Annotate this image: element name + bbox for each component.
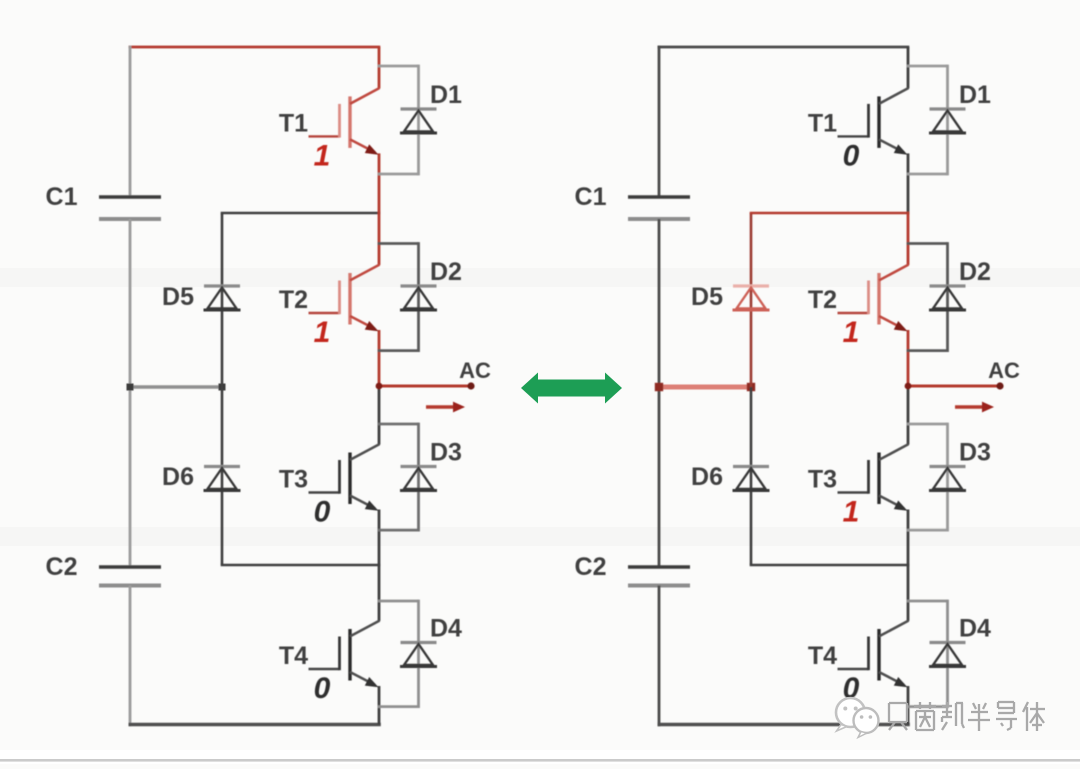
diode D6 clamp (left): [204, 467, 241, 491]
svg-text:1: 1: [843, 496, 860, 529]
svg-text:1: 1: [314, 139, 331, 172]
svg-text:AC: AC: [459, 358, 491, 383]
wire: freewheel branch top stub D3 (left): [378, 423, 419, 426]
wire: left bus rail C1 to neutral node (right): [658, 219, 661, 389]
wire: clamp top wire to T1/T2 junction (left): [221, 212, 381, 215]
node: neutral junction at bus rail (right): [655, 383, 663, 391]
wire: neutral link rail to clamp diodes (left): [130, 385, 222, 389]
node: neutral junction at clamp column (left): [219, 384, 226, 391]
wire: bottom DC- rail (right): [658, 723, 910, 727]
svg-text:D3: D3: [959, 439, 991, 467]
wire: clamp wire D6 column (left): [221, 387, 224, 565]
svg-text:T4: T4: [808, 642, 837, 670]
svg-text:T1: T1: [279, 109, 308, 137]
watermark logo chat bubble small: [854, 708, 879, 738]
svg-text:D5: D5: [162, 283, 194, 311]
node: AC junction on phase leg (right): [905, 383, 912, 390]
wire: freewheel branch top stub D1 (left): [378, 65, 419, 68]
svg-text:0: 0: [314, 496, 331, 529]
wire: phase leg AC node to T3 collector (right): [907, 386, 910, 445]
wire: freewheel branch top stub D2 (right): [907, 242, 948, 245]
wire: phase leg T2 emitter to AC node (right): [907, 330, 910, 386]
node: AC junction on phase leg (left): [376, 383, 383, 390]
node: AC terminal (left): [467, 382, 474, 389]
svg-text:D3: D3: [430, 439, 462, 467]
diode D2 freewheel (left): [400, 286, 437, 310]
wire: freewheel branch top stub D1 (right): [907, 65, 948, 68]
watermark logo chat bubble large: [836, 698, 865, 731]
svg-text:D5: D5: [691, 283, 723, 311]
diode D1 freewheel (left): [400, 109, 437, 133]
wire: bottom DC- rail (left): [129, 723, 381, 727]
svg-text:T3: T3: [279, 466, 308, 494]
transistor T1 (right): IGBT symbol: [838, 88, 909, 155]
svg-text:C1: C1: [46, 183, 78, 211]
wire: freewheel branch vertical D4 (right): [946, 600, 949, 708]
diode D3 freewheel (left): [400, 467, 437, 491]
wire: clamp wire D6 column (right): [750, 387, 753, 565]
wire: phase leg T3 emitter to T4 collector (left): [378, 510, 381, 622]
diode D4 freewheel (left): [400, 643, 437, 667]
wire: freewheel branch bottom stub D2 (left): [378, 349, 419, 352]
svg-text:T1: T1: [808, 109, 837, 137]
current direction arrow at AC output (left): [426, 402, 465, 413]
diode D5 clamp (left): [204, 286, 241, 310]
svg-text:0: 0: [314, 672, 331, 705]
capacitor C2 (right): [628, 567, 690, 586]
transistor T3 (left): IGBT symbol: [309, 444, 380, 511]
wire: freewheel branch vertical D3 (right): [946, 423, 949, 532]
transistor T1 (left): IGBT symbol: [309, 88, 380, 155]
transistor T2 (left): IGBT symbol: [309, 265, 380, 332]
wire: freewheel branch vertical D2 (left): [417, 242, 420, 352]
wire: freewheel branch vertical D4 (left): [417, 600, 420, 708]
node: neutral junction at bus rail (left): [127, 384, 134, 391]
wire: freewheel branch bottom stub D3 (right): [907, 529, 948, 532]
wire: left bus rail upper segment (right): [658, 46, 661, 197]
wire: left bus rail upper segment (left): [129, 46, 132, 197]
wire: AC output lead (right): [908, 385, 1000, 388]
svg-text:T4: T4: [279, 642, 308, 670]
wire: freewheel branch bottom stub D3 (left): [378, 529, 419, 532]
wire: phase leg T4 emitter to DC- rail (left): [378, 686, 381, 725]
wire: phase leg T2 emitter to AC node (left): [378, 330, 381, 386]
svg-text:0: 0: [843, 139, 860, 172]
capacitor C2 (left): [99, 567, 161, 586]
diode D2 freewheel (right): [929, 286, 966, 310]
green state-transition double arrow: [521, 373, 622, 404]
wire: freewheel branch vertical D2 (right): [946, 242, 949, 352]
wire: freewheel branch bottom stub D2 (right): [907, 349, 948, 352]
wire: clamp bottom wire to T3/T4 junction (left): [221, 564, 381, 567]
current direction arrow at AC output (right): [955, 402, 994, 413]
wire: freewheel branch top stub D4 (right): [907, 600, 948, 603]
wire: left bus rail lower segment (right): [658, 586, 661, 727]
wire: freewheel branch vertical D1 (right): [946, 65, 949, 176]
svg-text:D1: D1: [430, 81, 462, 109]
transistor T2 (right): IGBT symbol: [838, 265, 909, 332]
watermark text 贝茵凯半导体 (drawn strokes): [889, 702, 1045, 731]
wire: clamp wire D5 anode column (right): [750, 213, 753, 387]
wire: phase leg DC+ to T1 collector (right): [907, 47, 910, 88]
wire: AC output lead (left): [379, 385, 471, 388]
svg-text:T3: T3: [808, 466, 837, 494]
capacitor C1 (right): [628, 197, 690, 219]
wire: clamp top wire to T1/T2 junction (right): [750, 212, 910, 215]
svg-text:D2: D2: [959, 258, 991, 286]
wire: phase leg DC+ to T1 collector (left): [378, 47, 381, 88]
svg-text:D2: D2: [430, 258, 462, 286]
node: AC terminal (right): [996, 382, 1003, 389]
wire: freewheel branch bottom stub D4 (right): [907, 705, 948, 708]
wire: phase leg T1 emitter to T2 collector (left): [378, 153, 381, 265]
diode D6 clamp (right): [733, 467, 770, 491]
svg-text:AC: AC: [988, 358, 1020, 383]
svg-text:D6: D6: [691, 463, 723, 491]
wire: left bus rail neutral node to C2 (left): [129, 386, 132, 568]
diode D5 clamp (right): [733, 286, 770, 310]
wire: freewheel branch top stub D3 (right): [907, 423, 948, 426]
svg-text:C1: C1: [575, 183, 607, 211]
wire: phase leg T1 emitter to T2 collector (right): [907, 153, 910, 214]
svg-text:C2: C2: [575, 553, 607, 581]
capacitor C1 (left): [99, 197, 161, 219]
wire: freewheel branch top stub D4 (left): [378, 600, 419, 603]
wire: left bus rail neutral node to C2 (right): [658, 386, 661, 568]
diode D3 freewheel (right): [929, 467, 966, 491]
svg-text:C2: C2: [46, 553, 78, 581]
wire: left bus rail C1 to neutral node (left): [129, 219, 132, 389]
wire: clamp bottom wire to T3/T4 junction (right): [750, 564, 910, 567]
diode D1 freewheel (right): [929, 109, 966, 133]
wire: phase leg T4 emitter to DC- rail (right): [907, 686, 910, 725]
node: neutral junction at clamp column (right): [747, 383, 755, 391]
wire: freewheel branch bottom stub D1 (right): [907, 173, 948, 176]
wire: neutral link rail to clamp diodes (right): [659, 385, 751, 390]
wire: freewheel branch top stub D2 (left): [378, 242, 419, 245]
svg-text:D4: D4: [430, 615, 462, 643]
wire: phase leg AC node to T3 collector (left): [378, 386, 381, 445]
diode D4 freewheel (right): [929, 643, 966, 667]
wire: top DC+ rail (right circuit): [658, 46, 910, 49]
wire: left bus rail lower segment (left): [129, 586, 132, 727]
wire: freewheel branch vertical D1 (left): [417, 65, 420, 176]
svg-text:D4: D4: [959, 615, 991, 643]
wire: clamp wire D5 anode column (left): [221, 213, 224, 387]
svg-text:D1: D1: [959, 81, 991, 109]
transistor T4 (left): IGBT symbol: [309, 621, 380, 688]
svg-text:D6: D6: [162, 463, 194, 491]
wire: phase leg T3 emitter to T4 collector (right): [907, 510, 910, 622]
svg-text:1: 1: [843, 316, 860, 349]
svg-text:T2: T2: [279, 286, 308, 314]
transistor T4 (right): IGBT symbol: [838, 621, 909, 688]
wire: freewheel branch vertical D3 (left): [417, 423, 420, 532]
wire: top DC+ rail (left circuit): [129, 46, 381, 49]
svg-text:1: 1: [314, 316, 331, 349]
transistor T3 (right): IGBT symbol: [838, 444, 909, 511]
wire: freewheel branch bottom stub D1 (left): [378, 173, 419, 176]
wire: freewheel branch bottom stub D4 (left): [378, 705, 419, 708]
svg-text:T2: T2: [808, 286, 837, 314]
